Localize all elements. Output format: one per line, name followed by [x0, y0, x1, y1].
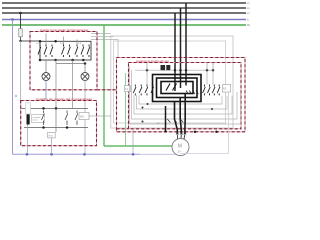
wire ctrl U3 [134, 95, 232, 114]
wire motor aux drop [165, 106, 167, 132]
node box1 d [54, 59, 57, 62]
svg-text:L3: L3 [247, 11, 250, 15]
wire motor out 3 [184, 94, 186, 135]
wire feed down to box2 [20, 41, 22, 108]
node coil bus 2 [174, 69, 177, 72]
switch S3c [87, 45, 90, 58]
node box1 e [71, 59, 74, 62]
wire feed to box1 [21, 40, 41, 42]
svg-text:motor: motor [32, 119, 38, 122]
wire box1 inner mid [63, 37, 65, 47]
wire lamp bus [56, 63, 85, 65]
wire into motor 2 [180, 134, 182, 139]
lamp H1 [42, 73, 50, 81]
contact KM1-3 [145, 85, 148, 96]
bus N [2, 18, 249, 22]
bus L1 [2, 1, 250, 5]
node box2 b [55, 107, 58, 110]
label breaker [32, 115, 45, 123]
node box1 c [39, 59, 42, 62]
node tap L3 left [19, 12, 22, 15]
wire neutral drop right [132, 129, 134, 155]
pole marks on frames [186, 91, 198, 95]
label KM1 [125, 86, 131, 92]
coil KM1 [161, 65, 166, 70]
wire stub into B right b [212, 63, 214, 71]
wire motor out 1 [175, 102, 178, 135]
wire dashed B bottom ext [117, 128, 129, 130]
wire stub into B left [146, 63, 148, 71]
wire lamp H1 neutral [45, 81, 47, 101]
contact K2 box2 [65, 111, 68, 126]
wire breaker neutral [27, 125, 29, 155]
contact KM1-1 [133, 85, 136, 96]
wire control 2 [91, 36, 114, 38]
node coil bus 5 [206, 69, 209, 72]
wire PE drop [103, 25, 105, 146]
node ctrl d [211, 108, 213, 110]
wire L3 tap down [20, 13, 22, 29]
enclosure G2 [114, 41, 226, 123]
wire into motor 1 [176, 134, 178, 139]
svg-text:3~: 3~ [178, 150, 182, 154]
node coil bus 1 [146, 69, 149, 72]
enclosure G1 [111, 36, 233, 128]
svg-text:N: N [247, 18, 249, 22]
svg-text:Cuadro de mando del montacarga: Cuadro de mando del montacargas [36, 97, 93, 101]
wire phase drop L2 [180, 8, 182, 88]
node coil bus 4 [185, 69, 188, 72]
node coil bus 3 [179, 69, 182, 72]
wire stub into B right a [206, 63, 208, 71]
wire dashed link box1 to panel [97, 89, 117, 91]
box instalacion (dashed outer right) [117, 58, 246, 132]
wire ctrl U5 [130, 67, 241, 125]
contact K1 box2 [42, 111, 45, 126]
svg-text:PE: PE [247, 23, 250, 27]
lamp H2 [81, 73, 89, 81]
relay box KM1aux [79, 113, 89, 120]
wire N bottom bus [13, 153, 141, 155]
wire aux drop 1 [206, 70, 208, 84]
wire relay neutral [51, 138, 53, 154]
wire aux drop 3 [146, 70, 148, 84]
wire ctrl U1 [139, 95, 222, 104]
node blue tick [15, 95, 17, 97]
svg-text:L2: L2 [247, 6, 250, 10]
wire ctrl U4 [132, 70, 238, 119]
wire PE branch [125, 73, 127, 146]
node N bottom 4 [132, 153, 135, 156]
node ctrl left a [142, 107, 144, 109]
wire box2 col2 [55, 108, 57, 132]
switch S1b [44, 45, 47, 58]
bus L3 [2, 11, 250, 15]
node box2 a [42, 107, 45, 110]
wire fuse to node [20, 37, 22, 41]
wire neutral right end [180, 92, 228, 154]
node box1 a [39, 40, 42, 43]
wire motor out 2 [180, 98, 181, 135]
thermal relay marks [167, 119, 183, 123]
node A bottom a [194, 131, 197, 134]
fuse F1 [19, 29, 23, 37]
breaker Q1 [27, 114, 30, 125]
contact KM2-4 [217, 85, 220, 96]
motor M1 [172, 139, 189, 156]
node lamp bus [84, 62, 87, 65]
wire into motor 3 [183, 134, 186, 139]
node box2 d [66, 126, 69, 129]
contact KM2-3 [212, 85, 215, 96]
node tap L3 right [174, 13, 176, 91]
switch S2b [68, 45, 71, 58]
contactor frame mid [157, 78, 198, 98]
svg-text:Cuadro Conmutador del Montacar: Cuadro Conmutador del Montacargas [40, 28, 88, 32]
wire box2 bottom bus [24, 127, 88, 129]
wire box1 ring bus [40, 41, 91, 60]
bus PE [2, 23, 251, 27]
wire aux drop 2 [212, 70, 214, 84]
wire N bottom bus faint [140, 153, 180, 155]
wire box1 inner right [76, 40, 78, 47]
contactor center contacts [166, 84, 177, 91]
label KM2 [223, 85, 231, 93]
wire control 3 [91, 40, 118, 58]
breaker housing [26, 103, 31, 114]
wire box1 exit 2 [72, 60, 74, 108]
contact KM2-1 [203, 85, 206, 96]
wire lamp H2 neutral [84, 81, 86, 155]
box Cuadro de mando (dashed) [21, 101, 97, 146]
contactor frame inner [161, 82, 193, 94]
contact KM2-2 [208, 85, 211, 96]
node fuse output [19, 40, 21, 42]
node N bottom 2 [50, 153, 53, 156]
relay box RT [48, 132, 56, 138]
svg-text:L1: L1 [247, 1, 250, 5]
motor terminal crosses [176, 132, 186, 135]
node coil bus 6 [212, 69, 215, 72]
box contactores (dashed) [129, 63, 242, 129]
wire ctrl U2 [137, 95, 228, 109]
wire N vertical [12, 20, 14, 155]
wire box2 top bus [21, 107, 89, 109]
wire to lamp H2 [84, 64, 86, 73]
svg-text:contador: contador [32, 116, 40, 119]
node N bottom 1 [26, 153, 29, 156]
bus L2 [2, 6, 250, 10]
node ctrl left b [142, 121, 144, 123]
wire box1 exit 1 [55, 60, 57, 108]
svg-text:Rele: Rele [49, 135, 54, 137]
node tap N left [11, 18, 14, 21]
wire control 1 [91, 33, 111, 35]
node box1 f [82, 59, 85, 62]
switch S3b [81, 45, 84, 58]
node ctrl c [147, 103, 149, 105]
wire PE to motor [104, 145, 172, 147]
svg-text:KM: KM [80, 115, 84, 118]
box Cuadro Conmutador (dashed) [30, 32, 97, 90]
contactor frame outer [153, 75, 202, 102]
node box2 c [42, 126, 45, 129]
node motor out [164, 130, 166, 132]
node box1 b [54, 40, 57, 43]
wire coil bus [135, 69, 213, 71]
wire box1 inner top [45, 34, 47, 47]
svg-text:Contactores de inversion del m: Contactores de inversion del motor [136, 59, 169, 63]
contact K3 box2 [75, 111, 78, 126]
wire phase drop L1 [185, 3, 187, 86]
switch S3a [75, 45, 78, 58]
switch S1a [38, 45, 41, 58]
node N bottom 3 [83, 153, 86, 156]
contact KM1-4 [151, 85, 154, 96]
switch S2a [62, 45, 65, 58]
coil KM2 [166, 65, 170, 70]
wire KM1aux right [89, 115, 97, 117]
wire breaker feed [27, 108, 29, 114]
node A bottom b [215, 131, 218, 134]
switch S1c [50, 45, 53, 58]
contact KM1-2 [139, 85, 142, 96]
wire box2 to contactor link [97, 115, 111, 117]
wire to lamp H1 [45, 60, 47, 73]
